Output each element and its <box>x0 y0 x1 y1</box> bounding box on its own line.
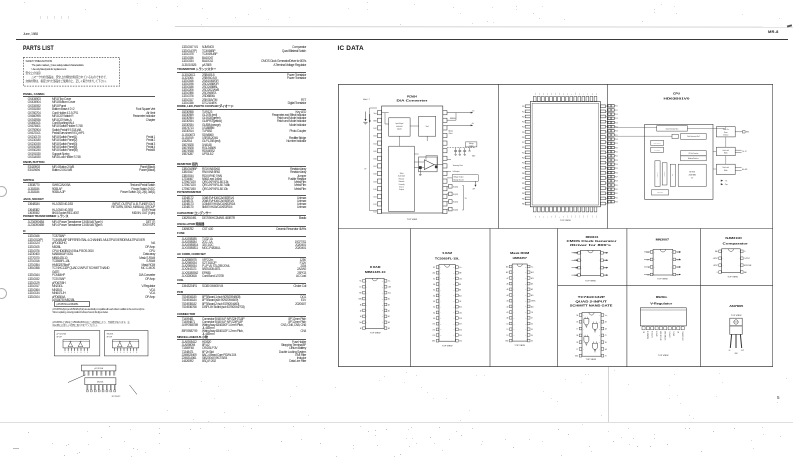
svg-text:Resistor: Resistor <box>398 177 404 180</box>
svg-text:VOLTAGE GND: VOLTAGE GND <box>664 331 667 340</box>
svg-text:IN: IN <box>647 267 648 269</box>
svg-text:Vcc: Vcc <box>530 266 533 268</box>
svg-text:1: 1 <box>114 352 115 354</box>
svg-text:2A: 2A <box>576 334 578 337</box>
svg-text:NC: NC <box>579 93 581 95</box>
svg-text:TOP VIEW: TOP VIEW <box>585 280 596 282</box>
svg-text:23: 23 <box>453 295 455 297</box>
svg-text:256B RAM: 256B RAM <box>688 174 696 177</box>
svg-text:B.13: B.13 <box>373 212 376 214</box>
svg-text:D0: D0 <box>506 323 508 325</box>
svg-text:P31: P31 <box>521 178 524 180</box>
svg-text:INPUT H: INPUT H <box>656 331 658 336</box>
svg-text:A2: A2 <box>359 309 361 312</box>
svg-text:Analog Ground: Analog Ground <box>453 178 463 181</box>
svg-text:4A: 4A <box>604 327 606 330</box>
svg-text:P24: P24 <box>615 164 618 166</box>
svg-text:3: 3 <box>71 352 72 354</box>
svg-text:P31: P31 <box>615 193 618 195</box>
svg-text:V-: V- <box>716 272 718 274</box>
svg-text:M5218L: M5218L <box>107 334 114 336</box>
svg-text:6: 6 <box>513 295 514 297</box>
svg-text:7: 7 <box>513 300 514 302</box>
svg-text:P23: P23 <box>521 163 524 165</box>
svg-text:6: 6 <box>366 310 367 312</box>
svg-text:B/STROBE: B/STROBE <box>744 265 751 267</box>
svg-text:5: 5 <box>738 272 739 274</box>
svg-text:A4: A4 <box>506 294 508 297</box>
svg-text:P36: P36 <box>521 203 524 205</box>
svg-text:P66: P66 <box>558 92 560 95</box>
svg-text:P62: P62 <box>587 215 589 218</box>
svg-text:MB81435-10: MB81435-10 <box>364 271 386 274</box>
svg-text:A5: A5 <box>387 315 389 318</box>
svg-text:P10: P10 <box>521 106 524 108</box>
svg-text:P43: P43 <box>606 122 609 124</box>
svg-text:A0~A15: A0~A15 <box>742 168 747 171</box>
svg-text:P67: P67 <box>566 215 568 218</box>
svg-text:Watch Dog: Watch Dog <box>656 191 662 194</box>
svg-text:5: 5 <box>513 289 514 291</box>
svg-text:CE: CE <box>530 312 532 314</box>
svg-text:P30: P30 <box>615 189 618 191</box>
svg-text:P23: P23 <box>615 160 618 162</box>
svg-text:I/O3: I/O3 <box>432 335 435 337</box>
svg-text:A12: A12 <box>432 272 435 275</box>
svg-text:2: 2 <box>68 352 69 354</box>
svg-text:20: 20 <box>524 312 526 314</box>
svg-text:E: E <box>571 94 573 95</box>
svg-text:P66: P66 <box>571 215 573 218</box>
svg-text:23: 23 <box>524 295 526 297</box>
svg-text:A4: A4 <box>433 294 435 297</box>
svg-text:8P 2RUP2: 8P 2RUP2 <box>112 396 120 398</box>
svg-text:D2: D2 <box>506 335 508 337</box>
svg-text:4: 4 <box>74 352 75 354</box>
svg-text:D/A Converter: D/A Converter <box>396 100 427 103</box>
svg-text:HM53257: HM53257 <box>512 257 527 260</box>
svg-text:NJM311D: NJM311D <box>725 237 742 240</box>
svg-text:GND: GND <box>471 156 474 158</box>
svg-text:P13: P13 <box>521 122 524 124</box>
svg-text:P42: P42 <box>606 116 609 118</box>
svg-text:2: 2 <box>654 259 655 261</box>
svg-text:7: 7 <box>439 301 440 303</box>
svg-text:8: 8 <box>136 352 137 354</box>
svg-text:Din: Din <box>359 287 361 289</box>
svg-text:D1: D1 <box>506 329 508 331</box>
svg-text:8P DIP: 8P DIP <box>57 336 63 338</box>
svg-text:MN3007: MN3007 <box>655 238 669 241</box>
svg-text:5: 5 <box>671 274 672 276</box>
svg-text:11: 11 <box>598 335 600 337</box>
svg-text:Clock Generator No.1: Clock Generator No.1 <box>665 127 678 130</box>
svg-text:12: 12 <box>381 316 383 318</box>
svg-text:: Pips: : Pips <box>724 184 728 186</box>
svg-text:3: 3 <box>582 328 583 330</box>
svg-text:P20: P20 <box>615 147 618 149</box>
svg-text:3: 3 <box>581 267 582 269</box>
svg-text:TOP VIEW: TOP VIEW <box>514 345 525 347</box>
svg-text:18: 18 <box>524 323 526 325</box>
svg-text:P19: P19 <box>615 143 618 145</box>
svg-text:13: 13 <box>439 335 441 337</box>
svg-text:AN7805: AN7805 <box>729 305 744 308</box>
svg-text:A6: A6 <box>387 297 389 300</box>
svg-text:3: 3 <box>513 278 514 280</box>
svg-text:16: 16 <box>453 335 455 337</box>
svg-text:GND: GND <box>646 252 649 254</box>
svg-text:Mode L.T: Mode L.T <box>363 99 370 101</box>
svg-text:B.0(12): B.0(12) <box>453 194 458 196</box>
svg-text:A10: A10 <box>530 305 533 308</box>
svg-text:D RAM: D RAM <box>369 266 379 269</box>
svg-text:D3: D3 <box>530 340 532 342</box>
svg-text:9: 9 <box>513 312 514 314</box>
svg-text:13: 13 <box>513 335 515 337</box>
svg-text:4: 4 <box>513 283 514 285</box>
svg-text:D7: D7 <box>530 318 532 320</box>
svg-text:TOP VIEW: TOP VIEW <box>727 276 738 278</box>
svg-text:Bipolar: Bipolar <box>448 130 453 133</box>
svg-text:22: 22 <box>453 301 455 303</box>
svg-text:A4: A4 <box>387 309 389 312</box>
svg-text:A1: A1 <box>506 311 508 314</box>
svg-text:24: 24 <box>453 290 455 292</box>
svg-text:A14: A14 <box>530 271 533 274</box>
svg-text:14: 14 <box>598 315 600 317</box>
svg-text:A1: A1 <box>359 315 361 318</box>
svg-text:Input 4-byte: Input 4-byte <box>395 122 403 125</box>
svg-text:P62: P62 <box>542 92 544 95</box>
svg-text:D5: D5 <box>530 329 532 331</box>
svg-text:NC: NC <box>643 331 645 333</box>
svg-text:6: 6 <box>671 267 672 269</box>
svg-text:8: 8 <box>513 306 514 308</box>
svg-text:IN: IN <box>728 350 730 352</box>
svg-text:12: 12 <box>598 328 600 330</box>
svg-text:RES: RES <box>554 215 556 218</box>
svg-text:Dout: Dout <box>387 292 391 295</box>
svg-text:27: 27 <box>453 273 455 275</box>
svg-text:A8: A8 <box>459 283 461 286</box>
svg-text:I/O Port Direction: I/O Port Direction <box>688 152 698 155</box>
svg-text:A6: A6 <box>433 283 435 286</box>
svg-text:1: 1 <box>654 252 655 254</box>
svg-text:RES: RES <box>575 92 577 95</box>
svg-text:B.0(15): B.0(15) <box>453 187 458 189</box>
svg-text:B.04: B.04 <box>373 143 376 145</box>
svg-text:: TTL: : TTL <box>724 180 727 182</box>
svg-text:10: 10 <box>381 328 383 330</box>
svg-text:OE/HC: OE/HC <box>530 301 535 303</box>
svg-text:P65: P65 <box>575 215 577 218</box>
svg-text:Buffer: Buffer <box>724 169 728 172</box>
svg-text:μPC4570A: μPC4570A <box>94 367 104 370</box>
svg-text:+Vs: +Vs <box>471 110 474 112</box>
svg-text:P16: P16 <box>521 137 524 139</box>
svg-text:A15: A15 <box>505 265 508 268</box>
svg-text:28: 28 <box>453 267 455 269</box>
svg-text:A3: A3 <box>506 300 508 303</box>
svg-text:SCHMITT NAND GATE: SCHMITT NAND GATE <box>569 304 613 307</box>
svg-text:25: 25 <box>524 283 526 285</box>
svg-text:3: 3 <box>439 278 440 280</box>
svg-text:OUT: OUT <box>740 350 743 352</box>
svg-text:5: 5 <box>77 352 78 354</box>
svg-text:P22: P22 <box>521 157 524 159</box>
svg-text:Detector: Detector <box>723 133 729 136</box>
svg-text:A9: A9 <box>387 327 389 330</box>
svg-text:GND: GND <box>734 353 737 355</box>
svg-text:Data Latch: Data Latch <box>722 166 729 169</box>
svg-text:EX: EX <box>587 93 589 95</box>
svg-text:B.03: B.03 <box>373 136 376 138</box>
svg-text:7: 7 <box>671 259 672 261</box>
svg-text:OUTPUT: OUTPUT <box>744 258 750 260</box>
svg-text:P17: P17 <box>615 135 618 137</box>
svg-text:7: 7 <box>738 258 739 260</box>
svg-text:3A: 3A <box>604 348 606 351</box>
svg-text:NC: NC <box>550 216 552 218</box>
svg-text:D6: D6 <box>530 323 532 325</box>
svg-text:P64: P64 <box>550 92 552 95</box>
svg-text:P34: P34 <box>521 193 524 195</box>
svg-text:10: 10 <box>598 342 600 344</box>
svg-text:Buffer: Buffer <box>724 152 728 155</box>
svg-text:P22: P22 <box>615 156 618 158</box>
svg-text:2: 2 <box>581 260 582 262</box>
svg-text:P11: P11 <box>522 111 525 113</box>
svg-text:5V: 5V <box>464 198 467 200</box>
svg-text:A10: A10 <box>459 306 462 309</box>
svg-text:P11: P11 <box>615 110 617 112</box>
svg-text:A0: A0 <box>433 317 435 320</box>
svg-text:Vdd: Vdd <box>359 322 362 324</box>
svg-text:1Y: 1Y <box>576 328 578 330</box>
svg-text:HD63B01V0: HD63B01V0 <box>663 96 690 100</box>
svg-text:2: 2 <box>117 352 118 354</box>
svg-text:A11: A11 <box>459 294 462 297</box>
svg-text:I/O8: I/O8 <box>459 318 462 320</box>
svg-text:NC: NC <box>678 331 680 333</box>
svg-text:RES: RES <box>745 132 748 134</box>
svg-text:A2: A2 <box>433 306 435 309</box>
svg-text:P10: P10 <box>615 106 618 108</box>
svg-text:CAS: CAS <box>387 286 390 289</box>
svg-text:BAL: BAL <box>715 250 718 253</box>
svg-text:A0: A0 <box>506 317 508 320</box>
svg-text:Data Buf: Data Buf <box>662 171 665 176</box>
svg-text:A0: A0 <box>359 303 361 306</box>
svg-text:B.07: B.07 <box>373 166 376 168</box>
svg-text:6: 6 <box>738 265 739 267</box>
svg-text:A7: A7 <box>433 277 435 280</box>
svg-text:14: 14 <box>381 304 383 306</box>
svg-text:3: 3 <box>120 352 121 354</box>
svg-text:EX: EX <box>542 216 544 218</box>
svg-text:17: 17 <box>453 329 455 331</box>
svg-text:1: 1 <box>722 251 723 253</box>
svg-text:22: 22 <box>524 300 526 302</box>
svg-text:A6: A6 <box>506 282 508 285</box>
svg-text:OUTPUT L: OUTPUT L <box>669 331 671 338</box>
svg-text:17: 17 <box>381 287 383 289</box>
svg-text:B.11: B.11 <box>373 197 376 199</box>
svg-text:1: 1 <box>582 315 583 317</box>
svg-text:1: 1 <box>581 253 582 255</box>
svg-text:Mask ROM: Mask ROM <box>510 252 529 255</box>
svg-text:NC: NC <box>595 93 597 95</box>
svg-text:E: E <box>558 217 560 218</box>
svg-text:I/O: I/O <box>691 178 694 180</box>
svg-text:Outputs: Outputs <box>398 188 403 191</box>
svg-text:MN3101: MN3101 <box>585 236 599 239</box>
svg-text:XT: XT <box>546 216 548 218</box>
svg-text:8: 8 <box>738 251 739 253</box>
svg-text:P21: P21 <box>615 151 618 153</box>
svg-text:BAL: BAL <box>744 271 747 274</box>
svg-text:4: 4 <box>439 284 440 286</box>
svg-text:D4: D4 <box>530 335 532 337</box>
svg-text:7: 7 <box>582 355 583 357</box>
svg-text:Reg: Reg <box>671 174 673 177</box>
svg-text:B.10: B.10 <box>373 189 376 191</box>
svg-text:4: 4 <box>581 275 582 277</box>
svg-text:8: 8 <box>439 307 440 309</box>
svg-text:CS1: CS1 <box>459 312 462 314</box>
svg-text:P12: P12 <box>615 114 618 116</box>
svg-text:Vout: Vout <box>373 112 377 115</box>
svg-text:A1: A1 <box>433 311 435 314</box>
svg-text:P28: P28 <box>615 181 618 183</box>
svg-text:INPUT L: INPUT L <box>673 331 675 336</box>
svg-text:2: 2 <box>439 273 440 275</box>
svg-text:P15: P15 <box>521 132 524 134</box>
svg-text:5: 5 <box>598 275 599 277</box>
svg-text:TOP VIEW: TOP VIEW <box>657 278 668 280</box>
svg-text:M5218L: M5218L <box>97 381 104 383</box>
svg-text:13: 13 <box>381 310 383 312</box>
svg-text:A8: A8 <box>530 282 532 285</box>
svg-text:Comparator: Comparator <box>722 242 747 245</box>
svg-text:9: 9 <box>366 328 367 330</box>
svg-text:OE: OE <box>459 301 461 303</box>
svg-text:I/O1: I/O1 <box>432 324 435 326</box>
svg-text:MN23GL: MN23GL <box>655 296 667 299</box>
svg-text:TOP VIEW: TOP VIEW <box>730 315 741 317</box>
svg-text:16: 16 <box>381 292 383 294</box>
svg-text:P18: P18 <box>615 139 618 141</box>
svg-text:7: 7 <box>84 352 85 354</box>
svg-text:μPC4570A: μPC4570A <box>57 333 67 336</box>
svg-text:4: 4 <box>124 352 125 354</box>
svg-text:25: 25 <box>453 284 455 286</box>
svg-text:20: 20 <box>453 312 455 314</box>
svg-text:6: 6 <box>439 295 440 297</box>
svg-text:Network: Network <box>398 180 404 183</box>
svg-text:P33: P33 <box>521 188 524 190</box>
svg-text:26: 26 <box>524 278 526 280</box>
svg-text:5: 5 <box>439 290 440 292</box>
svg-text:RAS: RAS <box>358 297 361 300</box>
svg-text:P49: P49 <box>606 203 609 205</box>
svg-text:MSB: MSB <box>373 121 376 123</box>
svg-text:9: 9 <box>599 349 600 351</box>
svg-text:Mode Select: Mode Select <box>653 142 660 145</box>
svg-text:V-Regulator: V-Regulator <box>650 302 672 305</box>
svg-text:5: 5 <box>366 304 367 306</box>
svg-text:I/O4: I/O4 <box>459 341 462 343</box>
svg-text:1P: 1P <box>364 168 366 170</box>
svg-text:8: 8 <box>87 352 88 354</box>
svg-text:16: 16 <box>524 335 526 337</box>
svg-text:16-bit latch: 16-bit latch <box>397 175 404 178</box>
svg-text:11: 11 <box>381 322 383 324</box>
svg-text:P21: P21 <box>521 152 524 154</box>
svg-text:B.05: B.05 <box>373 151 376 153</box>
svg-text:11: 11 <box>513 323 515 325</box>
svg-text:P65: P65 <box>554 92 556 95</box>
svg-text:P63: P63 <box>583 215 585 218</box>
svg-text:A9: A9 <box>530 288 532 291</box>
svg-text:B.0(11): B.0(11) <box>453 202 458 204</box>
svg-text:TOP VIEW: TOP VIEW <box>406 219 417 221</box>
svg-text:WE: WE <box>359 293 361 295</box>
svg-text:P27: P27 <box>615 176 618 178</box>
svg-text:8: 8 <box>366 322 367 324</box>
svg-text:TC74HC132P: TC74HC132P <box>577 296 605 299</box>
svg-text:4: 4 <box>366 298 367 300</box>
svg-text:A3: A3 <box>387 303 389 306</box>
svg-text:P33: P33 <box>615 202 618 204</box>
svg-text:15: 15 <box>524 340 526 342</box>
svg-text:P61: P61 <box>538 92 540 95</box>
svg-text:A12: A12 <box>505 271 508 274</box>
svg-text:1B: 1B <box>576 322 578 324</box>
svg-text:21: 21 <box>524 306 526 308</box>
svg-text:P29: P29 <box>615 185 618 187</box>
svg-text:A7: A7 <box>506 277 508 280</box>
svg-text:NC: NC <box>591 93 593 95</box>
svg-text:P64: P64 <box>579 215 581 218</box>
svg-text:6: 6 <box>582 349 583 351</box>
svg-text:B.09: B.09 <box>373 181 376 183</box>
svg-text:8: 8 <box>671 252 672 254</box>
svg-text:6: 6 <box>598 267 599 269</box>
svg-text:P12: P12 <box>521 116 524 118</box>
svg-text:16-bit: 16-bit <box>399 172 403 175</box>
svg-text:Source: Source <box>399 186 404 189</box>
svg-text:8P DIP: 8P DIP <box>107 336 113 338</box>
svg-text:A5: A5 <box>506 288 508 291</box>
svg-text:NC: NC <box>538 216 540 218</box>
svg-text:P60: P60 <box>534 92 536 95</box>
svg-text:P14: P14 <box>615 122 618 124</box>
svg-text:P63: P63 <box>546 92 548 95</box>
svg-text:7: 7 <box>366 316 367 318</box>
svg-text:5: 5 <box>127 352 128 354</box>
svg-text:XT: XT <box>583 93 585 95</box>
svg-text:P35: P35 <box>521 198 524 200</box>
svg-text:TC5565FL-15L: TC5565FL-15L <box>434 257 459 260</box>
svg-text:GND: GND <box>574 356 577 358</box>
svg-text:TOP VIEW: TOP VIEW <box>369 332 380 334</box>
svg-text:P14: P14 <box>521 127 524 129</box>
svg-text:19: 19 <box>453 318 455 320</box>
svg-text:P32: P32 <box>521 183 524 185</box>
svg-text:2Y: 2Y <box>576 349 578 351</box>
